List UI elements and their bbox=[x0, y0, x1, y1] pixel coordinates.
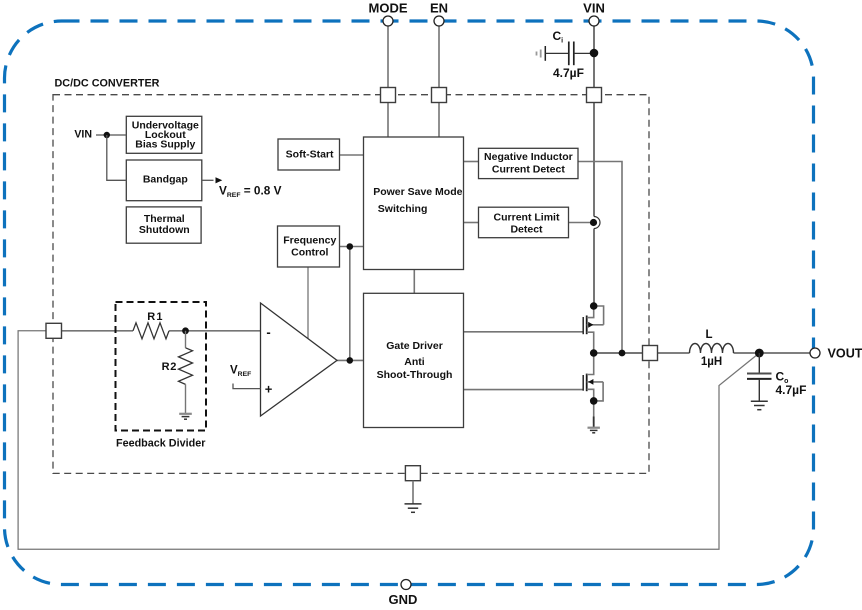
pin terminal GND bbox=[401, 580, 411, 590]
block U9 Gate Driver Anti Shoot-Through bbox=[364, 293, 464, 427]
svg-text:VIN: VIN bbox=[583, 1, 605, 16]
svg-text:R2: R2 bbox=[162, 361, 177, 373]
pin pad SW bbox=[643, 346, 658, 361]
wire freq-control bottom to comparator top edge bbox=[307, 267, 309, 338]
svg-text:Shoot-Through: Shoot-Through bbox=[377, 369, 453, 381]
wire SW pad to inductor bbox=[658, 352, 690, 354]
transistor Q1 PMOS high-side bbox=[583, 306, 603, 353]
wire NICD to switch node column bbox=[578, 162, 622, 354]
block U8 Current Limit Detect bbox=[479, 207, 569, 238]
pin terminal VIN bbox=[589, 16, 599, 26]
svg-text:Feedback Divider: Feedback Divider bbox=[116, 438, 206, 450]
junction dot switch node right bbox=[619, 350, 626, 357]
svg-text:-: - bbox=[266, 325, 270, 340]
wire inductor to VOUT node bbox=[734, 352, 760, 354]
junction dot R1/R2 bbox=[182, 327, 189, 334]
wire FB pad to R1 bbox=[62, 330, 134, 332]
svg-text:Frequency: Frequency bbox=[283, 235, 336, 247]
svg-text:R1: R1 bbox=[147, 311, 163, 323]
block U3 Thermal Shutdown bbox=[126, 207, 201, 243]
svg-text:Shutdown: Shutdown bbox=[139, 224, 190, 236]
wire MODE pad to block bbox=[387, 103, 389, 138]
pin pad FB bbox=[46, 323, 62, 338]
svg-text:+: + bbox=[265, 382, 273, 397]
resistor R2 bbox=[179, 331, 193, 414]
svg-text:GND: GND bbox=[389, 592, 418, 607]
label Frequency Control bbox=[283, 235, 336, 259]
wire EN pad to block bbox=[438, 103, 440, 138]
wire switch node bbox=[594, 352, 643, 354]
label Undervoltage Lockout Bias Supply bbox=[132, 119, 199, 150]
wire CLD output to VIN rail bbox=[569, 222, 593, 224]
svg-text:Soft-Start: Soft-Start bbox=[286, 149, 334, 161]
wire PSM to current limit detect bbox=[464, 222, 479, 224]
inductor L bbox=[690, 344, 734, 354]
pin pad MODE bbox=[381, 88, 396, 103]
label Power Save Mode Switching bbox=[373, 186, 462, 215]
capacitor Ci bbox=[537, 42, 595, 66]
junction dot PMOS source / VIN bbox=[590, 302, 598, 310]
wire freq-control to PSM bbox=[340, 246, 364, 248]
wire PSM to negative inductor current detect bbox=[464, 161, 479, 163]
feedback divider dashed enclosure bbox=[116, 302, 207, 431]
capacitor Co bbox=[747, 353, 772, 401]
wire comparator output to gate driver bbox=[337, 359, 364, 361]
svg-text:Current Detect: Current Detect bbox=[492, 164, 565, 176]
svg-text:Bandgap: Bandgap bbox=[143, 173, 188, 185]
svg-text:VIN: VIN bbox=[74, 129, 92, 141]
junction dot comparator output bbox=[347, 357, 354, 364]
wire VIN rail upper bbox=[593, 103, 595, 217]
svg-text:4.7µF: 4.7µF bbox=[776, 383, 807, 397]
op-amp U10 comparator bbox=[261, 303, 338, 416]
pin pad GND bbox=[405, 466, 420, 481]
ground R2 bbox=[179, 414, 192, 419]
wire MODE drop bbox=[387, 26, 389, 88]
block U2 Bandgap bbox=[126, 160, 202, 201]
node VREF = 0.8 V (bandgap output arrow + label) bbox=[202, 177, 282, 199]
block U5 Frequency Control bbox=[278, 226, 340, 267]
wire feedback diagonal from VOUT node bbox=[18, 331, 759, 550]
junction dot VOUT node bbox=[755, 349, 764, 358]
node VREF comparator input bbox=[230, 365, 261, 389]
block U7 Negative Inductor Current Detect bbox=[479, 148, 579, 178]
svg-text:1µH: 1µH bbox=[701, 356, 722, 368]
label Current Limit Detect bbox=[494, 212, 560, 236]
wire VIN rail lower bbox=[593, 229, 595, 307]
transistor Q2 NMOS low-side bbox=[583, 353, 603, 423]
junction dot Ci / VIN rail bbox=[590, 49, 599, 58]
pin terminal VOUT bbox=[810, 348, 820, 358]
block U1 Undervoltage Lockout Bias Supply bbox=[126, 116, 202, 153]
svg-text:Control: Control bbox=[291, 247, 328, 259]
ground Co bbox=[751, 401, 768, 410]
DC/DC CONVERTER inner dashed box bbox=[53, 95, 649, 474]
wire VOUT node to VOUT terminal bbox=[759, 352, 810, 354]
svg-text:Bias Supply: Bias Supply bbox=[135, 139, 195, 151]
wire gate driver to NMOS gate bbox=[464, 389, 584, 391]
label Thermal Shutdown bbox=[139, 213, 190, 236]
junction dot frequency-control / comparator output column bbox=[347, 243, 354, 250]
svg-text:EN: EN bbox=[430, 1, 448, 16]
svg-text:MODE: MODE bbox=[369, 1, 408, 16]
node VIN internal (label + dot + wires) bbox=[74, 129, 126, 181]
svg-text:Negative Inductor: Negative Inductor bbox=[484, 151, 573, 163]
resistor R1 bbox=[133, 323, 169, 339]
svg-text:Gate Driver: Gate Driver bbox=[386, 340, 443, 352]
label Gate Driver Anti Shoot-Through bbox=[377, 340, 453, 381]
svg-text:Anti: Anti bbox=[404, 356, 424, 368]
svg-text:Switching: Switching bbox=[378, 203, 428, 215]
junction dot switch node left bbox=[590, 349, 598, 357]
pin pad VIN bbox=[587, 88, 602, 103]
pin pad EN bbox=[432, 88, 447, 103]
svg-text:L: L bbox=[705, 329, 712, 341]
svg-text:Detect: Detect bbox=[510, 224, 543, 236]
wire EN drop bbox=[438, 26, 440, 88]
pin terminal MODE bbox=[383, 16, 393, 26]
wire VIN drop bbox=[593, 26, 595, 88]
wire PSM bottom to gate driver bbox=[413, 270, 415, 294]
wire gate driver to PMOS gate bbox=[464, 331, 584, 333]
svg-text:4.7µF: 4.7µF bbox=[553, 66, 584, 80]
pin terminal EN bbox=[434, 16, 444, 26]
junction dot NMOS source bbox=[590, 397, 598, 405]
svg-text:Power Save Mode: Power Save Mode bbox=[373, 186, 462, 198]
ground GND pad bbox=[405, 481, 422, 513]
wire freq-control junction down to comparator output bbox=[349, 247, 351, 361]
block U6 Power Save Mode Switching bbox=[364, 137, 464, 270]
svg-text:VOUT: VOUT bbox=[828, 347, 862, 361]
block U4 Soft-Start bbox=[278, 139, 340, 170]
svg-text:DC/DC CONVERTER: DC/DC CONVERTER bbox=[55, 78, 160, 90]
label Negative Inductor Current Detect bbox=[484, 151, 573, 176]
svg-text:Current Limit: Current Limit bbox=[494, 212, 560, 224]
junction hop + dot CLD / VIN rail bbox=[590, 217, 600, 229]
wire soft-start to PSM bbox=[340, 154, 364, 156]
wire R1 to comparator minus input bbox=[169, 330, 261, 332]
ground NMOS source bbox=[588, 417, 600, 433]
